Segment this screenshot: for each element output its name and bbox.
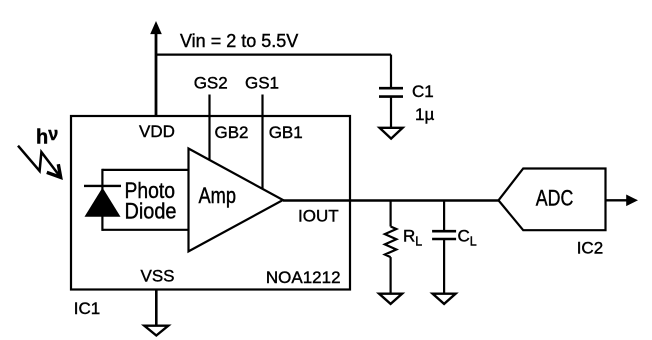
wire photodiode loop bottom: [102, 229, 188, 231]
wire GS1: [261, 95, 263, 189]
power arrow VDD up: [150, 21, 162, 34]
svg-text:GB1: GB1: [269, 123, 303, 142]
wire RL lead top: [390, 201, 392, 227]
svg-text:IOUT: IOUT: [298, 207, 339, 226]
wire IOUT horizontal: [283, 199, 500, 201]
svg-text:1µ: 1µ: [415, 105, 434, 124]
wire GS2: [208, 95, 210, 161]
wire photodiode loop left: [101, 169, 103, 231]
svg-text:IC1: IC1: [74, 299, 100, 318]
svg-text:GS1: GS1: [245, 74, 279, 93]
svg-text:GB2: GB2: [215, 123, 249, 142]
wire VDD supply vertical: [155, 30, 158, 116]
arrowhead output: [626, 195, 638, 207]
svg-text:GS2: GS2: [194, 74, 228, 93]
wire C1 bottom lead: [390, 98, 392, 128]
wire C1 top lead: [390, 55, 392, 88]
wire CL lead top: [443, 201, 445, 231]
photodiode D1 triangle: [85, 188, 121, 217]
capacitor C1: [379, 87, 403, 90]
svg-text:VDD: VDD: [139, 122, 175, 141]
wire VSS ground lead: [155, 290, 158, 326]
wire ADC output arrow: [606, 199, 628, 201]
ADC U2 pentagon: [499, 169, 606, 231]
svg-text:Vin = 2 to 5.5V: Vin = 2 to 5.5V: [180, 31, 298, 51]
light ray arrow: [18, 146, 60, 177]
wire CL lead bottom: [443, 240, 445, 294]
svg-text:Amp: Amp: [199, 183, 237, 208]
svg-text:VSS: VSS: [141, 267, 175, 286]
svg-text:ADC: ADC: [536, 186, 574, 211]
svg-text:C1: C1: [412, 82, 434, 101]
IC1 box: [71, 116, 350, 290]
ground VSS: [144, 326, 168, 336]
ground C1: [380, 128, 403, 139]
svg-text:NOA1212: NOA1212: [266, 268, 341, 287]
wire RL lead bottom: [390, 257, 392, 294]
capacitor CL: [432, 230, 456, 233]
wire Vin horizontal to C1: [156, 53, 391, 55]
op-amp U1 triangle: [189, 149, 284, 252]
ground RL: [379, 294, 402, 304]
svg-text:IC2: IC2: [577, 239, 603, 258]
ground CL: [433, 294, 456, 304]
wire photodiode loop top: [102, 169, 188, 171]
svg-text:Diode: Diode: [125, 199, 177, 224]
photodiode D1 cathode bar: [84, 185, 121, 187]
resistor RL: [385, 227, 397, 258]
